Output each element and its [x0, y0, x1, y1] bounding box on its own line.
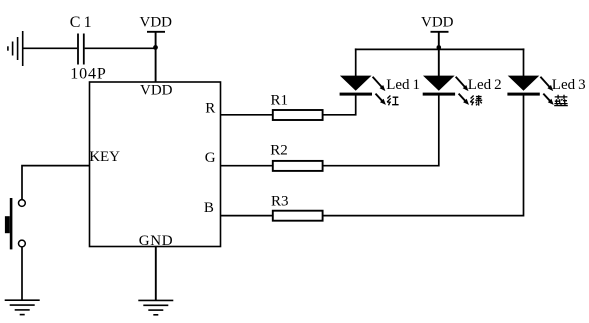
wire button to ground — [21, 247, 23, 300]
LED Led1 arrows — [373, 77, 386, 105]
svg-text:Led 2: Led 2 — [468, 77, 502, 93]
wire VDD bar down to IC — [155, 32, 157, 83]
wire C1 to VDD junction — [85, 47, 156, 49]
power VDD (left) — [140, 15, 173, 32]
junction (VDD / C1) — [153, 45, 158, 50]
LED Led2 arrows — [456, 77, 469, 105]
junction (VDD / bus) — [437, 45, 442, 50]
svg-text:R3: R3 — [271, 194, 289, 210]
power VDD (right) — [421, 15, 454, 32]
LED Led2 — [423, 76, 455, 96]
resistor R1 — [273, 110, 323, 120]
LED Led1 — [340, 76, 372, 96]
net label 蓝 (blue) — [554, 95, 568, 106]
wire R pin to R1 — [221, 114, 273, 116]
svg-text:C 1: C 1 — [70, 14, 92, 31]
net label 绿 (green) — [470, 95, 482, 105]
svg-text:B: B — [204, 200, 214, 216]
svg-text:VDD: VDD — [140, 82, 173, 98]
LED Led3 arrows — [540, 77, 553, 105]
wire VDD down through bus — [438, 32, 440, 76]
wire bus to LED3 — [523, 48, 525, 76]
wire bus to LED1 — [355, 48, 357, 76]
wire R1 to LED1 — [323, 95, 356, 114]
svg-text:Led 3: Led 3 — [552, 77, 586, 93]
wire GND pin to ground — [155, 247, 157, 301]
svg-text:GND: GND — [139, 233, 174, 249]
wire R2 to LED2 — [323, 95, 439, 165]
wire B pin to R3 — [221, 215, 273, 217]
svg-text:R2: R2 — [270, 143, 288, 159]
svg-text:VDD: VDD — [140, 15, 173, 31]
svg-text:VDD: VDD — [421, 15, 454, 31]
push button S1 — [5, 198, 25, 249]
svg-text:104P: 104P — [70, 65, 107, 82]
svg-text:R1: R1 — [271, 92, 289, 108]
ground (below IC) — [138, 300, 173, 314]
capacitor C1 — [78, 34, 84, 65]
svg-text:G: G — [205, 150, 216, 166]
svg-text:Led 1: Led 1 — [386, 77, 420, 93]
ground (below button) — [5, 300, 40, 314]
ground (earth, rotated, top-left) — [8, 31, 23, 66]
net label 红 (red) — [387, 96, 399, 106]
LED Led3 — [507, 76, 539, 96]
svg-text:KEY: KEY — [89, 149, 120, 165]
resistor R2 — [273, 161, 323, 171]
wire ground to C1 — [23, 47, 77, 49]
wire KEY pin — [22, 166, 90, 200]
wire R3 to LED3 — [323, 95, 524, 215]
svg-text:R: R — [205, 100, 215, 116]
wire G pin to R2 — [221, 165, 273, 167]
wire bus (anode rail) — [355, 48, 524, 50]
IC U1 box — [90, 82, 221, 247]
resistor R3 — [273, 211, 323, 221]
